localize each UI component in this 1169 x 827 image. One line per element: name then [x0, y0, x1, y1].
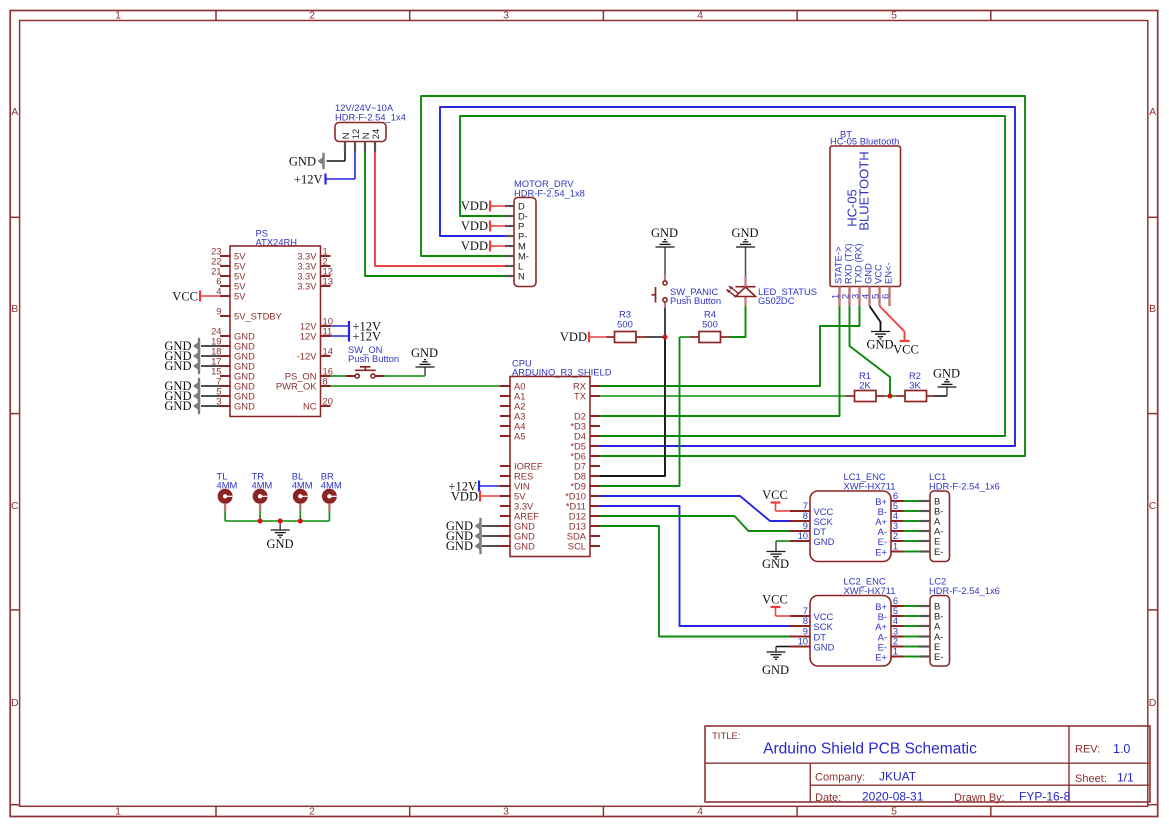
svg-text:ARDUINO_R3_SHIELD: ARDUINO_R3_SHIELD — [512, 366, 612, 377]
wire MOTOR_DRV M- to CPU D6 — [421, 96, 1025, 456]
mounting hole BR 4MM — [321, 471, 342, 511]
svg-text:2: 2 — [893, 530, 898, 541]
svg-text:8: 8 — [323, 376, 328, 387]
ground GND earth above SW_PANIC — [651, 226, 678, 274]
ground GND flag at PS pin y=386 — [164, 378, 220, 394]
wire R2 to ground — [934, 395, 947, 397]
svg-text:Arduino Shield PCB Schematic: Arduino Shield PCB Schematic — [763, 741, 977, 758]
svg-text:5V: 5V — [234, 291, 246, 302]
wire BT TXD to RX net — [859, 306, 861, 326]
wire R3 to junction — [645, 336, 665, 338]
resistor R1 2K — [846, 370, 886, 402]
svg-text:Sheet:: Sheet: — [1075, 773, 1107, 785]
power +12V flag at PS pin y=326 — [331, 320, 382, 334]
power VDD flag at MOTOR_DRV y=246 — [461, 239, 505, 253]
svg-text:XWF-HX711: XWF-HX711 — [844, 585, 896, 596]
mounting hole TR 4MM — [252, 471, 273, 511]
mounting hole BL 4MM — [292, 471, 313, 511]
svg-text:HDR-F-2.54_1x6: HDR-F-2.54_1x6 — [929, 585, 1000, 596]
svg-text:1: 1 — [115, 806, 121, 818]
svg-text:VDD: VDD — [461, 219, 488, 233]
IC PS ATX24RH — [211, 228, 333, 417]
svg-text:A5: A5 — [514, 431, 525, 442]
svg-text:GND: GND — [266, 537, 293, 551]
svg-text:2K: 2K — [859, 380, 871, 391]
wire BT GND to earth — [870, 306, 881, 332]
svg-text:VCC: VCC — [893, 343, 919, 357]
svg-text:GND: GND — [814, 536, 835, 547]
svg-text:E+: E+ — [875, 546, 887, 557]
svg-text:-12V: -12V — [297, 351, 318, 362]
svg-text:2: 2 — [309, 10, 315, 22]
svg-text:Drawn By:: Drawn By: — [954, 792, 1005, 804]
wire CPU TX to R1 — [600, 395, 846, 397]
ground GND flag at PS pin y=396 — [164, 388, 220, 404]
mounting hole TL 4MM — [217, 471, 238, 511]
svg-text:GND: GND — [762, 663, 789, 677]
svg-text:D: D — [11, 697, 19, 709]
wire MOTOR_DRV D- to CPU D4 — [460, 116, 1005, 436]
svg-text:TITLE:: TITLE: — [712, 731, 741, 742]
svg-text:G502DC: G502DC — [758, 295, 795, 306]
svg-text:D: D — [1149, 697, 1157, 709]
svg-text:GND: GND — [814, 641, 835, 652]
svg-text:GND: GND — [289, 155, 316, 169]
svg-text:1: 1 — [115, 10, 121, 22]
svg-text:5: 5 — [891, 10, 897, 22]
svg-text:C: C — [11, 500, 19, 512]
power VCC flag below BT pin5 — [893, 341, 919, 357]
svg-text:11: 11 — [323, 326, 333, 337]
svg-text:5: 5 — [891, 806, 897, 818]
power VCC flag at LC1_ENC pin7 — [762, 488, 790, 511]
ground GND flag at CPU pin y=546 — [446, 538, 500, 554]
ground GND flag at PS pin y=356 — [164, 348, 220, 364]
wire LC1_ENC GND to earth — [776, 540, 790, 542]
svg-text:VDD: VDD — [461, 199, 488, 213]
switch SW_PANIC Push Button — [652, 274, 722, 308]
wire PWR pin4 24 to MOTOR_DRV L — [375, 152, 505, 266]
svg-text:GND: GND — [164, 399, 191, 413]
svg-text:SCK: SCK — [814, 621, 834, 632]
svg-text:4: 4 — [697, 10, 703, 22]
svg-text:GND: GND — [164, 359, 191, 373]
wire MOTOR_DRV P- to CPU D5 — [440, 107, 1015, 446]
svg-text:+12V: +12V — [294, 173, 323, 187]
header LC1 HDR-F-2.54_1x6 — [919, 471, 1000, 562]
svg-text:3.3V: 3.3V — [297, 281, 317, 292]
svg-text:24: 24 — [370, 129, 381, 139]
svg-text:GND: GND — [234, 401, 255, 412]
power +12V flag at CPU VIN — [448, 479, 500, 493]
wire R4 to LED_STATUS — [730, 306, 746, 337]
wire CPU D10 to LC1_ENC SCK — [600, 496, 790, 521]
svg-text:HDR-F-2.54_1x6: HDR-F-2.54_1x6 — [929, 481, 1000, 492]
wires LC1_ENC to LC1 — [904, 501, 920, 552]
junction TR bus — [258, 519, 263, 524]
ground GND earth at R2 — [933, 367, 960, 397]
wire CPU RX to BT TXD — [600, 306, 860, 386]
power VCC flag at LC2_ENC pin7 — [762, 593, 790, 617]
svg-text:4: 4 — [216, 286, 221, 297]
svg-text:3K: 3K — [909, 380, 921, 391]
junction at R3 SW_PANIC D8 — [663, 335, 668, 340]
svg-text:JKUAT: JKUAT — [879, 770, 917, 784]
ground GND earth above LED_STATUS — [731, 226, 758, 276]
IC LC1_ENC XWF-HX711 — [790, 471, 904, 562]
svg-text:VDD: VDD — [461, 239, 488, 253]
title block — [705, 726, 1150, 804]
svg-text:REV:: REV: — [1075, 744, 1100, 756]
svg-text:HDR-F-2.54_1x4: HDR-F-2.54_1x4 — [335, 111, 406, 122]
wire BT VCC to VCC flag — [880, 306, 905, 341]
svg-text:4: 4 — [893, 615, 898, 626]
svg-text:HC-05 Bluetooth: HC-05 Bluetooth — [830, 136, 899, 147]
ground GND earth below BT pin4 — [866, 332, 893, 352]
svg-text:4: 4 — [697, 806, 703, 818]
svg-text:Push Button: Push Button — [670, 295, 721, 306]
svg-text:VCC: VCC — [172, 289, 198, 303]
svg-text:5V_STDBY: 5V_STDBY — [234, 311, 283, 322]
ground GND earth at SW_ON — [411, 346, 438, 376]
wire PS PS_ON to SW_ON — [331, 375, 347, 377]
wire CPU D12 to LC1_ENC DT — [600, 516, 790, 531]
svg-text:XWF-HX711: XWF-HX711 — [844, 481, 896, 492]
wire BT STATE to D2 net — [839, 306, 841, 416]
switch SW_ON Push Button — [346, 344, 399, 378]
power VDD flag at CPU 5V — [451, 489, 500, 503]
junction BL bus — [298, 519, 303, 524]
svg-text:BLUETOOTH: BLUETOOTH — [857, 151, 872, 230]
wire CPU D11 to LC2_ENC SCK — [600, 506, 790, 626]
wires LC2_ENC to LC2 — [904, 606, 920, 657]
svg-text:500: 500 — [702, 319, 718, 330]
ground GND flag at PS pin y=346 — [164, 338, 220, 354]
ground GND flag at PS pin y=366 — [164, 358, 220, 374]
svg-text:A: A — [934, 621, 941, 632]
svg-text:E-: E- — [934, 651, 943, 662]
power VDD flag at MOTOR_DRV y=226 — [461, 219, 505, 233]
svg-text:Push Button: Push Button — [348, 353, 399, 364]
junction mid bus — [278, 519, 283, 524]
IC LC2_ENC XWF-HX711 — [790, 576, 904, 667]
ground GND flag at PS pin y=406 — [164, 398, 220, 414]
wire SW_ON to ground — [385, 375, 426, 377]
power +12V flag at PS pin y=336 — [331, 330, 382, 344]
svg-text:Date:: Date: — [815, 792, 841, 804]
svg-text:1/1: 1/1 — [1117, 771, 1134, 785]
svg-text:GND: GND — [411, 346, 438, 360]
svg-text:FYP-16-8: FYP-16-8 — [1019, 790, 1071, 804]
svg-text:C: C — [1149, 500, 1157, 512]
svg-text:2: 2 — [309, 806, 315, 818]
wire junction to R2 — [890, 395, 896, 397]
svg-text:A+: A+ — [875, 621, 887, 632]
svg-text:3: 3 — [503, 806, 509, 818]
svg-text:GND: GND — [446, 539, 473, 553]
svg-text:GND: GND — [933, 367, 960, 381]
svg-text:VCC: VCC — [762, 593, 788, 607]
svg-text:N: N — [518, 271, 525, 282]
svg-text:1.0: 1.0 — [1113, 742, 1130, 756]
module BT HC-05 Bluetooth — [830, 129, 901, 306]
header PWR 12V/24V~10A HDR-F-2.54_1x4 — [335, 102, 406, 152]
ground GND flag at PWR pin1 — [289, 152, 345, 169]
svg-text:2020-08-31: 2020-08-31 — [862, 790, 924, 804]
svg-text:VDD: VDD — [560, 330, 587, 344]
wire CPU D2 to BT STATE — [600, 306, 840, 416]
wire D9 net to R4 — [680, 336, 691, 338]
resistor R3 500 — [607, 309, 646, 343]
svg-text:10: 10 — [798, 636, 808, 647]
resistor R2 3K — [896, 370, 934, 402]
ground GND flag at CPU pin y=526 — [446, 518, 500, 534]
svg-text:1: 1 — [893, 541, 898, 552]
power VCC flag at PS pin4 — [172, 289, 220, 303]
svg-text:500: 500 — [617, 319, 633, 330]
svg-text:20: 20 — [323, 396, 333, 407]
svg-text:B: B — [11, 303, 18, 315]
svg-text:3: 3 — [503, 10, 509, 22]
power +12V flag at PWR pin2 — [294, 152, 355, 187]
svg-text:A: A — [1149, 106, 1156, 118]
wire LC2_ENC GND to earth — [776, 646, 790, 648]
power VDD flag at R3 — [560, 330, 607, 344]
junction R1 R2 BT — [888, 394, 893, 399]
ground GND flag at CPU pin y=536 — [446, 528, 500, 544]
svg-text:14: 14 — [323, 346, 333, 357]
svg-text:E-: E- — [878, 536, 887, 547]
svg-text:12V: 12V — [300, 331, 317, 342]
LED LED_STATUS G502DC — [727, 276, 818, 306]
svg-text:13: 13 — [323, 276, 333, 287]
ground GND earth below mounting holes — [266, 521, 293, 551]
ground GND earth at LC1_ENC — [762, 541, 789, 571]
IC CPU ARDUINO_R3_SHIELD — [500, 358, 612, 557]
svg-text:1: 1 — [893, 646, 898, 657]
svg-text:E: E — [934, 536, 940, 547]
svg-text:PWR_OK: PWR_OK — [276, 381, 317, 392]
svg-text:10: 10 — [798, 530, 808, 541]
wire CPU D13 to LC2_ENC DT — [600, 526, 790, 637]
svg-text:3: 3 — [216, 396, 221, 407]
svg-text:Company:: Company: — [815, 772, 865, 784]
header LC2 HDR-F-2.54_1x6 — [919, 576, 1000, 667]
header MOTOR_DRV HDR-F-2.54_1x8 — [505, 178, 585, 287]
wire R1 to junction — [885, 395, 890, 397]
wire BT RXD to R1 R2 junction — [850, 306, 891, 396]
svg-text:VDD: VDD — [451, 489, 478, 503]
wire PWR pin3 N to MOTOR_DRV N — [365, 152, 505, 276]
svg-text:E+: E+ — [875, 651, 887, 662]
svg-text:GND: GND — [651, 226, 678, 240]
svg-text:8: 8 — [803, 615, 808, 626]
power VDD flag at MOTOR_DRV y=206 — [461, 199, 505, 213]
resistor R4 500 — [690, 309, 730, 343]
svg-text:VCC: VCC — [762, 488, 788, 502]
wire CPU D9 to R4 — [600, 337, 680, 486]
svg-text:6: 6 — [880, 294, 891, 299]
svg-text:9: 9 — [216, 306, 221, 317]
wire CPU D8 to SW_PANIC — [600, 337, 665, 476]
svg-text:TX: TX — [574, 391, 587, 402]
wire mounting holes ground bus — [225, 511, 329, 521]
svg-text:EN<-: EN<- — [883, 262, 894, 284]
svg-text:GND: GND — [514, 541, 535, 552]
wire SW_PANIC to junction — [664, 308, 666, 337]
ground GND earth at LC2_ENC — [762, 647, 789, 678]
svg-text:SCL: SCL — [568, 541, 586, 552]
svg-text:A: A — [11, 106, 18, 118]
wire PS PWR_OK to CPU A0 — [331, 385, 501, 387]
svg-text:GND: GND — [866, 338, 893, 352]
svg-text:GND: GND — [762, 557, 789, 571]
svg-text:E-: E- — [934, 546, 943, 557]
svg-text:GND: GND — [731, 226, 758, 240]
svg-text:B: B — [1149, 303, 1156, 315]
svg-text:+12V: +12V — [353, 330, 382, 344]
svg-text:NC: NC — [303, 401, 317, 412]
